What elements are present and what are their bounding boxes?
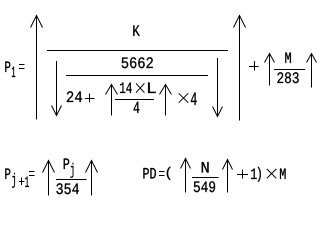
up arrow (before N/549) (181, 158, 191, 193)
text M (numerator of M/283) (285, 53, 291, 64)
text 24 (67, 91, 82, 102)
up arrow (after M/283) (307, 53, 317, 88)
left tall up arrow (opens big bracket) (31, 15, 43, 120)
inner down arrow (left of denominator) (52, 61, 62, 116)
text 4 (of x4 factor) (191, 93, 197, 106)
text 4 (denominator of 14xL/4) (134, 102, 140, 113)
text closing parenthesis (258, 167, 261, 182)
text 14 (of 14xL) (120, 83, 132, 94)
text 5662 (122, 57, 153, 68)
text multiplication sign (of 14xL) (136, 83, 144, 92)
text PD (143, 168, 156, 179)
up arrow (before M/283) (265, 53, 275, 86)
text subscript j (numerator Pj) (71, 163, 74, 178)
text subscript 1 (of Pj+1=) (25, 177, 29, 188)
up arrow (before Pj/354) (43, 160, 55, 196)
fraction bar (N over 549) (192, 177, 219, 179)
text P (of P1=) (5, 62, 10, 73)
text opening parenthesis (167, 167, 171, 180)
text + (before M/283 term) (249, 61, 259, 71)
main fraction bar (K over ...) (47, 50, 228, 52)
text multiplication sign (of xM) (267, 169, 277, 178)
text P (numerator Pj) (64, 159, 69, 170)
text 549 (denominator) (194, 181, 215, 192)
text M (final factor) (280, 169, 286, 180)
text subscript j (of Pj+1=) (12, 173, 15, 188)
second fraction bar (5662 over 24+...) (66, 75, 208, 77)
text subscript 1 (of P1=) (12, 67, 15, 78)
fraction bar (M over 283) (274, 69, 305, 71)
text + (of +1) (237, 170, 248, 179)
text = (of Pj+1=) (29, 172, 35, 176)
up arrow (after 14xL/4 fraction) (160, 84, 172, 116)
text K (numerator of main fraction) (133, 25, 140, 36)
up arrow (after N/549) (223, 159, 233, 193)
small fraction bar (14xL over 4) (115, 99, 154, 101)
text = (of P1=) (19, 65, 25, 69)
text = (of PD=) (159, 172, 165, 176)
text 1 (of +1) (251, 169, 257, 180)
up arrow (before 14xL/4 fraction) (106, 84, 118, 116)
text L (of 14xL) (148, 83, 156, 94)
fraction bar (Pj over 354) (56, 179, 87, 181)
text subscript + (of Pj+1=) (19, 178, 25, 186)
up arrow (after Pj/354) (86, 160, 98, 196)
text 283 (denominator) (277, 72, 298, 83)
text 354 (denominator) (56, 183, 79, 194)
right tall up arrow (closes big bracket) (234, 15, 246, 121)
text + (after 24) (85, 94, 95, 103)
text N (numerator of N/549) (202, 162, 209, 173)
text multiplication sign (of x4 factor) (179, 93, 189, 102)
big down arrow (right of denominator) (213, 58, 223, 117)
text P (of Pj+1=) (5, 169, 10, 180)
